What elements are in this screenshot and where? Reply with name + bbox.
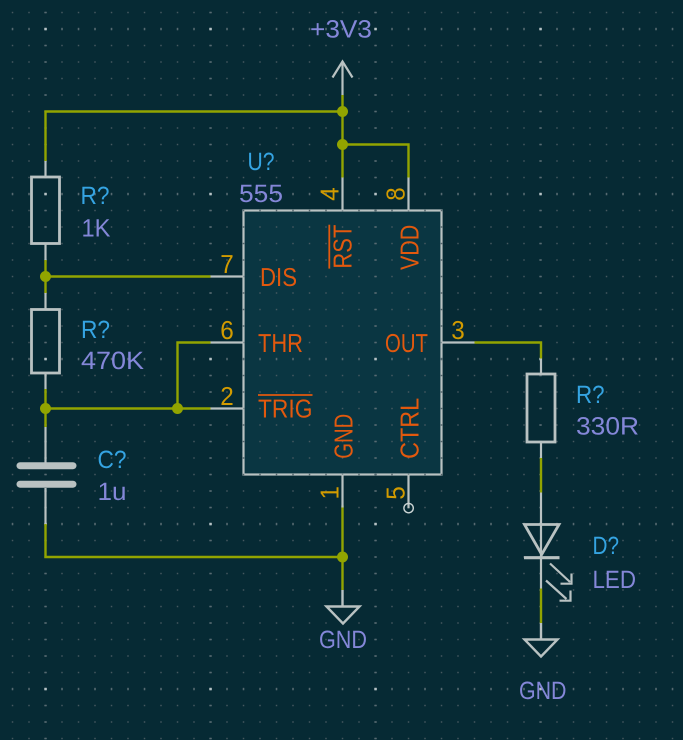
svg-text:R?: R? (81, 182, 110, 210)
svg-text:TRIG: TRIG (258, 394, 313, 424)
svg-text:4: 4 (315, 187, 345, 201)
svg-text:2: 2 (220, 381, 234, 411)
svg-text:GND: GND (329, 414, 359, 459)
svg-text:VDD: VDD (395, 225, 425, 270)
svg-text:GND: GND (319, 626, 367, 654)
svg-text:1: 1 (315, 486, 345, 500)
svg-text:1u: 1u (98, 478, 127, 506)
svg-text:CTRL: CTRL (395, 398, 425, 459)
svg-text:330R: 330R (576, 413, 639, 441)
svg-text:3: 3 (451, 315, 465, 345)
svg-text:U?: U? (248, 148, 275, 176)
svg-text:R?: R? (576, 381, 605, 409)
svg-text:+3V3: +3V3 (310, 16, 372, 44)
svg-text:R?: R? (81, 316, 110, 344)
svg-text:DIS: DIS (260, 262, 297, 292)
svg-text:C?: C? (98, 446, 127, 474)
svg-text:1K: 1K (82, 215, 111, 243)
svg-text:5: 5 (381, 486, 411, 500)
svg-text:555: 555 (239, 180, 283, 208)
svg-text:D?: D? (593, 532, 620, 560)
svg-text:GND: GND (519, 677, 567, 705)
svg-text:OUT: OUT (385, 328, 428, 358)
svg-text:7: 7 (220, 249, 234, 279)
svg-text:8: 8 (381, 187, 411, 201)
svg-text:6: 6 (220, 315, 234, 345)
svg-text:LED: LED (593, 566, 637, 594)
svg-text:470K: 470K (81, 347, 144, 375)
svg-text:THR: THR (258, 328, 303, 358)
svg-text:RST: RST (328, 225, 358, 269)
